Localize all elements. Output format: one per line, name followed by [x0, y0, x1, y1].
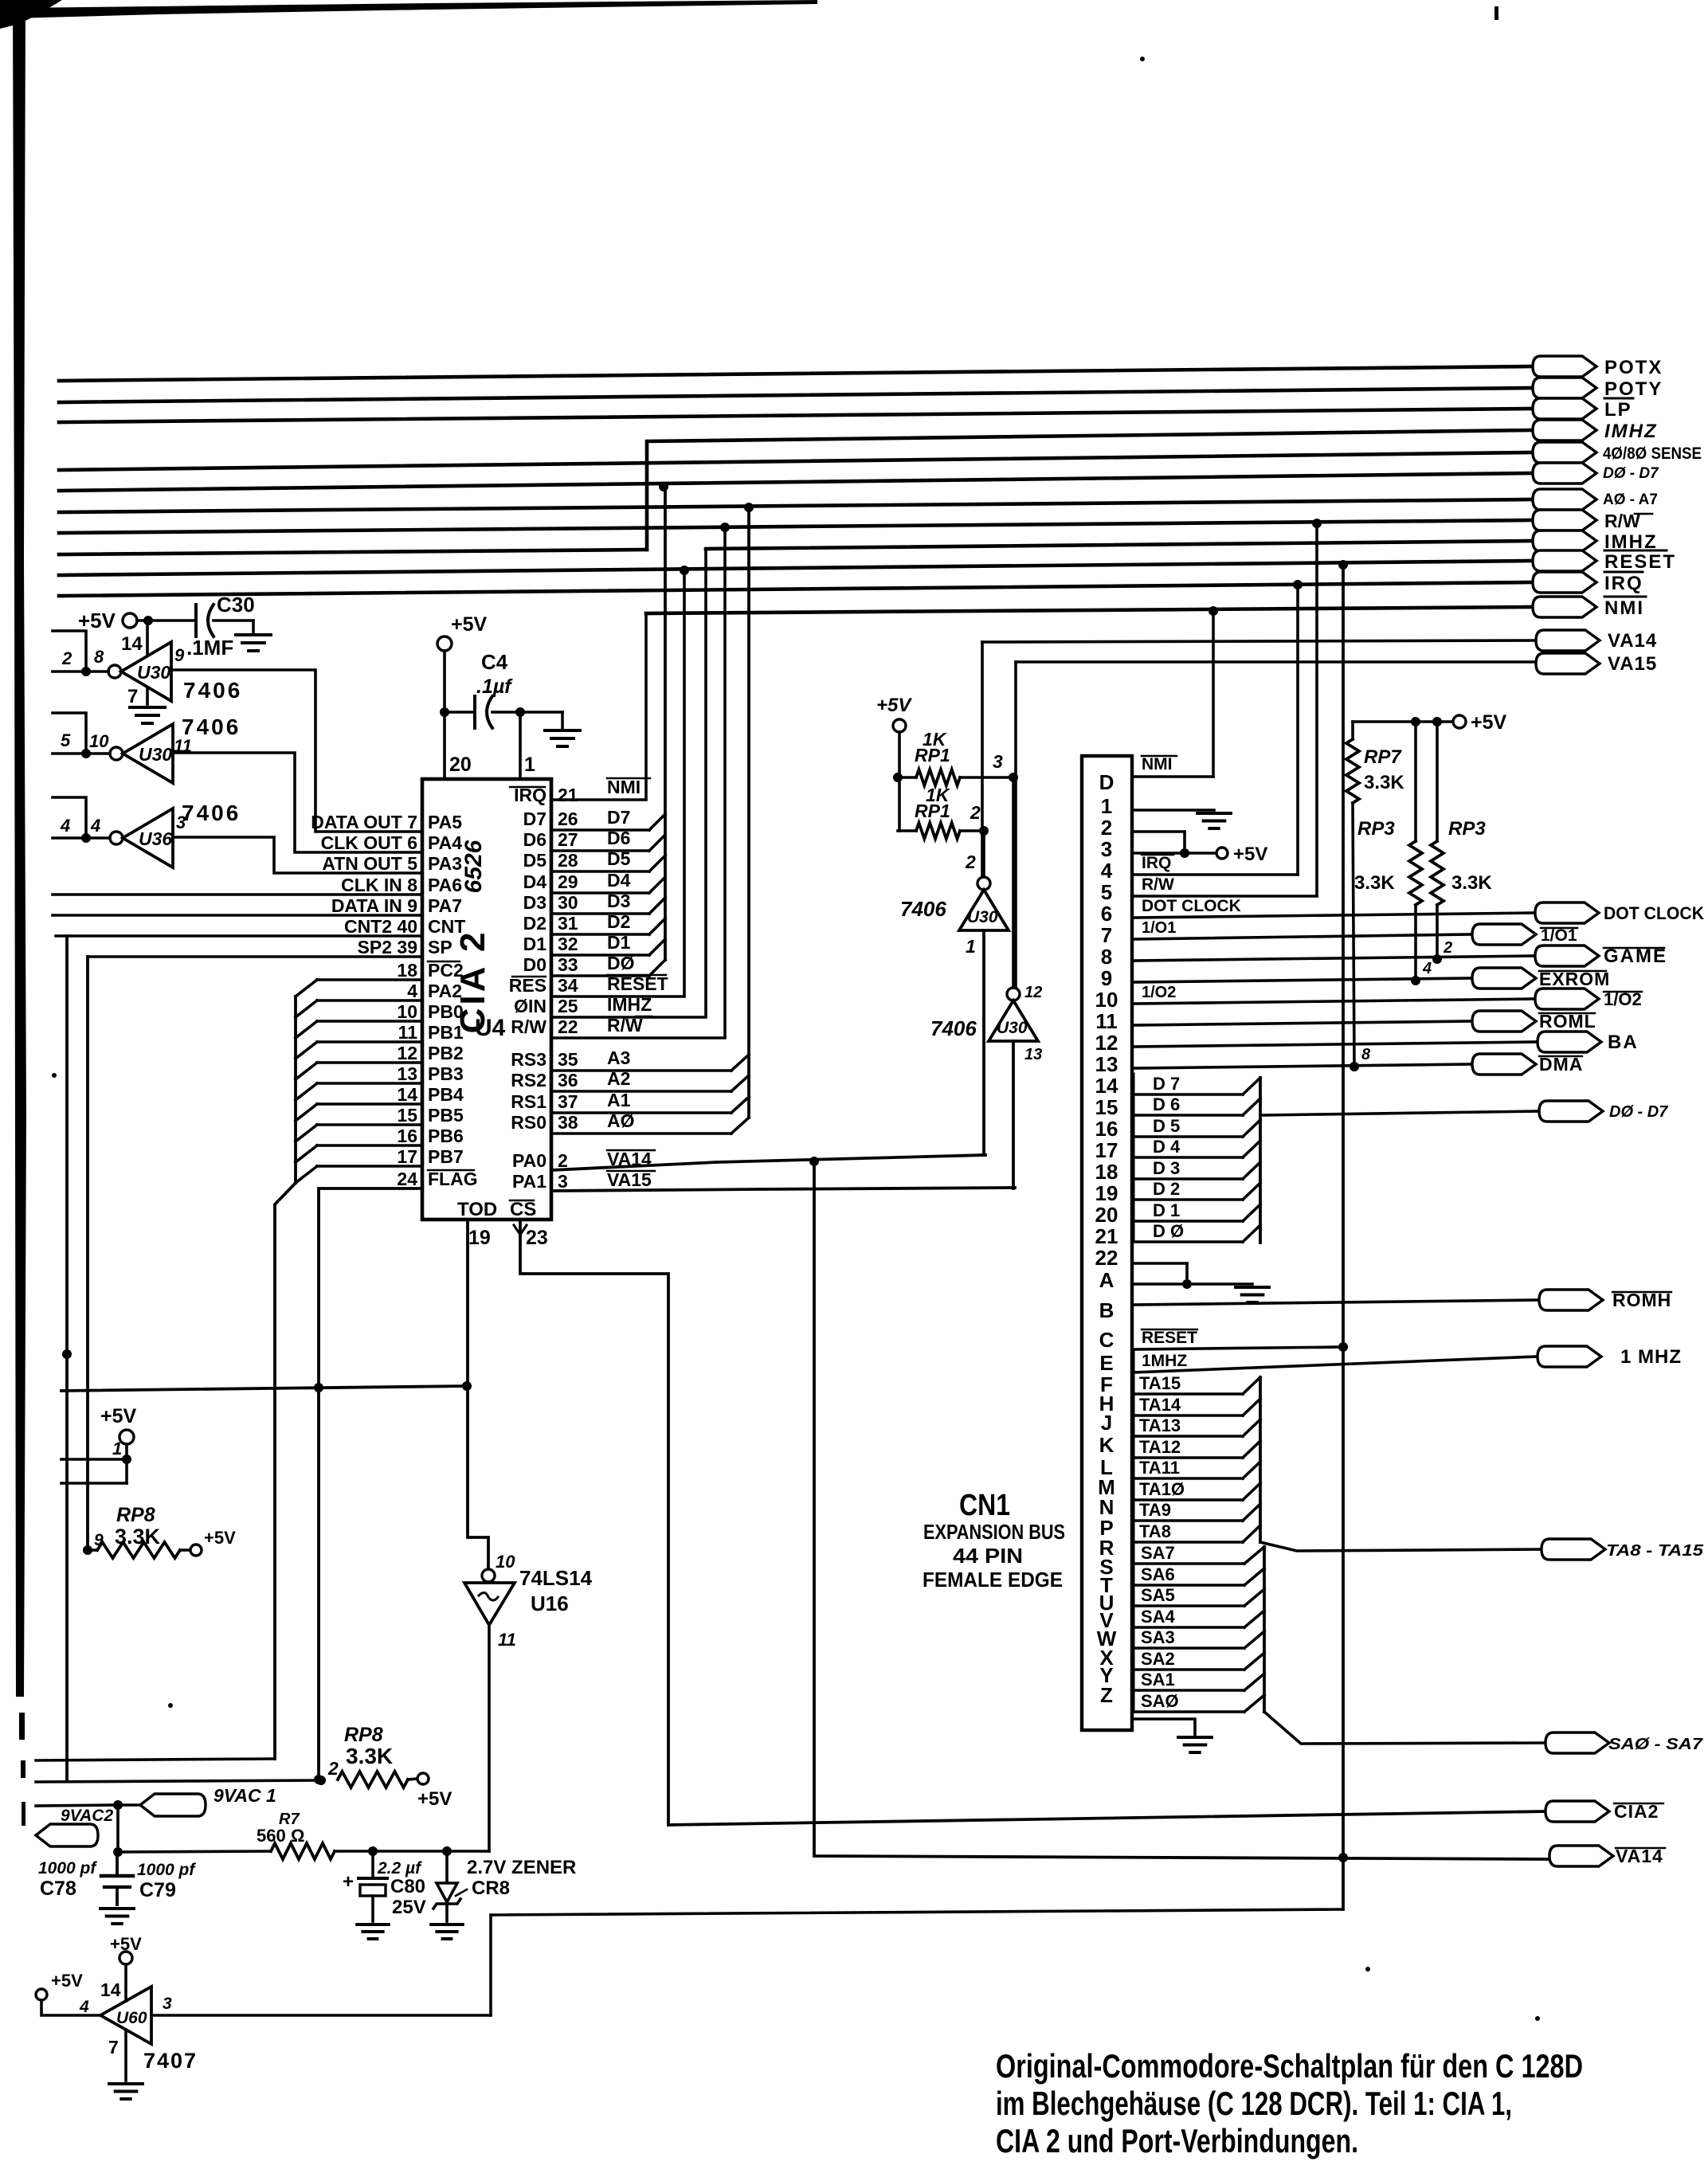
wire long vertical RESET / bottom chain x1686	[1342, 565, 1345, 1909]
svg-text:PB1: PB1	[428, 1022, 464, 1043]
svg-text:C4: C4	[481, 650, 508, 674]
svg-text:3.3K: 3.3K	[115, 1525, 161, 1549]
CN1 TA15..TA8 pins with bus merge	[1132, 1392, 1243, 1396]
svg-text:1: 1	[1101, 794, 1112, 818]
CN1 pin 1 ground	[1132, 809, 1214, 812]
power +5V at RP7/RP3	[1353, 720, 1453, 723]
svg-text:27: 27	[558, 829, 578, 850]
svg-text:+5V: +5V	[78, 609, 116, 632]
svg-text:RP3: RP3	[1357, 818, 1395, 840]
wire FLAG row vertical	[319, 1188, 422, 1780]
svg-text:2.2 µf: 2.2 µf	[377, 1859, 422, 1877]
svg-text:D7: D7	[607, 807, 630, 828]
svg-text:TA9: TA9	[1139, 1500, 1171, 1520]
junction on bus	[1338, 560, 1348, 570]
svg-text:7406: 7406	[183, 678, 242, 703]
U60 pin 14 +5V	[119, 1952, 132, 1964]
svg-text:+5V: +5V	[451, 613, 488, 636]
svg-text:PC2: PC2	[428, 960, 464, 981]
svg-text:9: 9	[94, 1531, 104, 1549]
junction on bus	[1209, 606, 1218, 616]
connector flag D0-D7	[1533, 463, 1596, 484]
svg-text:PA2: PA2	[428, 981, 462, 1001]
svg-text:U36: U36	[139, 828, 172, 849]
svg-text:FEMALE EDGE: FEMALE EDGE	[923, 1568, 1063, 1592]
svg-text:A: A	[1099, 1268, 1115, 1292]
svg-text:DOT CLOCK: DOT CLOCK	[1142, 897, 1241, 915]
svg-text:4: 4	[60, 816, 70, 836]
wire CIA SP2 to left vertical	[88, 955, 422, 958]
svg-text:14: 14	[1095, 1074, 1118, 1098]
svg-text:SA2: SA2	[1141, 1649, 1175, 1669]
svg-text:SP: SP	[428, 937, 452, 957]
scan border left bar	[13, 0, 26, 1697]
svg-text:3: 3	[993, 751, 1003, 772]
wire bus LP	[59, 409, 1533, 422]
CN1 pin 6 DOT CLOCK wire+flag	[1132, 913, 1535, 918]
wire SA0-SA7 to flag	[1264, 1712, 1545, 1744]
svg-text:Original-Commodore-Schaltplan: Original-Commodore-Schaltplan für den C …	[996, 2047, 1583, 2085]
svg-text:CN1: CN1	[959, 1489, 1010, 1522]
svg-text:10: 10	[496, 1552, 515, 1572]
svg-text:14: 14	[100, 1979, 121, 2000]
wire bus 1MHZ cartridge (upper italic) with riser	[647, 430, 1533, 550]
svg-text:9VAC2: 9VAC2	[61, 1807, 113, 1825]
svg-text:10: 10	[1095, 988, 1118, 1012]
svg-text:D 4: D 4	[1153, 1137, 1181, 1157]
scan border top line	[13, 0, 817, 18]
svg-text:POTY: POTY	[1604, 378, 1663, 400]
svg-text:RS1: RS1	[511, 1091, 546, 1112]
svg-text:3: 3	[163, 1995, 172, 2013]
svg-text:CNT2 40: CNT2 40	[344, 916, 417, 937]
svg-text:IRQ: IRQ	[1142, 854, 1171, 872]
svg-text:26: 26	[558, 809, 578, 829]
svg-text:D2: D2	[523, 913, 546, 934]
svg-text:U30: U30	[967, 908, 998, 926]
svg-text:22: 22	[558, 1016, 578, 1037]
svg-text:17: 17	[1095, 1138, 1118, 1162]
connector flag VA14 bottom	[1549, 1846, 1613, 1866]
resistor RP1 a (1K) to VA15 riser	[916, 769, 960, 785]
svg-text:D 7: D 7	[1153, 1074, 1180, 1094]
svg-text:TA12: TA12	[1139, 1437, 1181, 1457]
svg-text:15: 15	[397, 1105, 417, 1126]
connector flag 1MHZ-cart	[1533, 420, 1596, 440]
junction on bus	[680, 566, 689, 575]
svg-text:8: 8	[1361, 1046, 1371, 1063]
svg-text:D0: D0	[523, 954, 546, 975]
wire VA14 riser top x1233	[981, 642, 984, 879]
svg-text:1000 pf: 1000 pf	[38, 1859, 97, 1877]
svg-text:4: 4	[1422, 960, 1432, 977]
connector flag NMI	[1533, 597, 1596, 617]
svg-text:1/O1: 1/O1	[1142, 919, 1176, 937]
svg-text:+: +	[343, 1871, 354, 1893]
svg-text:D6: D6	[523, 829, 546, 850]
svg-text:PB6: PB6	[428, 1126, 464, 1146]
svg-text:8: 8	[94, 647, 104, 667]
CN1 pin 10 I/O2 wire+flag	[1132, 999, 1535, 1004]
connector flag CIA2	[1545, 1801, 1609, 1822]
svg-text:3.3K: 3.3K	[1354, 872, 1395, 894]
wire CIA PA0 row (VA14)	[551, 1155, 985, 1170]
svg-text:17: 17	[397, 1146, 417, 1167]
svg-text:C80: C80	[390, 1876, 425, 1897]
svg-text:TA8: TA8	[1139, 1521, 1171, 1541]
svg-text:PB2: PB2	[428, 1043, 464, 1063]
svg-text:B: B	[1099, 1298, 1115, 1322]
svg-text:11: 11	[498, 1630, 516, 1650]
svg-text:VA15: VA15	[607, 1169, 652, 1190]
wire bottom return from U60 to x1686	[491, 1909, 1343, 2015]
svg-text:13: 13	[1095, 1052, 1118, 1076]
wire bus NMI (from CIA IRQ pin 21 riser)	[646, 607, 1533, 613]
svg-text:33: 33	[558, 954, 578, 975]
wire horizontal link y1742	[61, 1386, 468, 1391]
wire bus 1MHZ system (from CIA phi-in riser)	[706, 541, 1533, 549]
svg-text:29: 29	[558, 871, 578, 892]
junction on bus	[1293, 580, 1303, 589]
svg-text:+5V: +5V	[417, 1788, 452, 1810]
connector flag R/W	[1533, 510, 1596, 531]
svg-text:LP: LP	[1604, 399, 1632, 421]
scan border left bar dashes	[19, 1713, 25, 1740]
svg-text:+5V: +5V	[1471, 711, 1507, 734]
inverter U36 (7406)	[110, 832, 123, 844]
svg-text:TA8 - TA15: TA8 - TA15	[1606, 1542, 1704, 1560]
svg-text:FLAG: FLAG	[428, 1169, 478, 1189]
wire bundle tail to x345 vertical	[275, 1183, 296, 1759]
svg-text:A1: A1	[607, 1090, 631, 1110]
CN1 pin C RESET wire	[1132, 1347, 1343, 1349]
CN1 pin 13 DMA wire+flag	[1132, 1064, 1472, 1068]
svg-text:5: 5	[61, 730, 71, 750]
svg-text:SP2 39: SP2 39	[358, 937, 417, 957]
resistor RP8 a 3.3K with +5V	[83, 1545, 92, 1555]
svg-text:.1MF: .1MF	[186, 636, 233, 660]
wire horizontal y2235 RP8b node	[36, 1780, 321, 1782]
svg-text:TOD: TOD	[457, 1199, 497, 1220]
svg-text:+5V: +5V	[110, 1934, 142, 1954]
svg-text:19: 19	[1095, 1181, 1118, 1205]
svg-text:25V: 25V	[392, 1897, 426, 1918]
pin 1 wire of CIA	[519, 712, 522, 779]
svg-text:RP3: RP3	[1448, 818, 1486, 840]
svg-text:RS2: RS2	[511, 1070, 546, 1090]
svg-text:D7: D7	[523, 809, 546, 829]
resistor R7 560 ohm	[118, 1851, 271, 1852]
connector flag 40/80	[1533, 442, 1596, 463]
junction on bus	[659, 482, 668, 491]
svg-text:DØ - D7: DØ - D7	[1609, 1103, 1668, 1121]
CN1 pin 7 I/O1 wire+flag	[1132, 934, 1472, 939]
svg-text:8: 8	[1101, 945, 1112, 969]
svg-text:1/O1: 1/O1	[1541, 926, 1577, 945]
input wire U30a with stub	[53, 670, 108, 673]
U60 pin 7 ground	[124, 2030, 127, 2081]
svg-text:7406: 7406	[182, 801, 241, 825]
svg-text:+5V: +5V	[204, 1528, 236, 1548]
CN1 pin E 1MHZ wire+flag	[1132, 1357, 1538, 1372]
inverter U30 gate A (7406)	[108, 665, 121, 678]
scan speck top right	[1494, 6, 1498, 20]
CN1 pin 4 IRQ wire	[1132, 873, 1298, 876]
svg-text:21: 21	[1095, 1224, 1118, 1248]
svg-text:D 6: D 6	[1153, 1094, 1180, 1114]
wire CIA phi-IN riser to 1MHZ bus	[551, 549, 706, 1017]
wire TA8-TA15 to flag	[1260, 1542, 1542, 1551]
svg-text:1000 pf: 1000 pf	[137, 1861, 196, 1879]
connector flag POTY	[1533, 378, 1596, 398]
resistor RP3 b 3.3K	[1436, 722, 1439, 841]
svg-text:AØ - A7: AØ - A7	[1603, 491, 1658, 508]
wire CIA pin19 TOD down to U16 chain	[468, 1220, 488, 1569]
svg-text:EXPANSION BUS: EXPANSION BUS	[923, 1520, 1065, 1544]
svg-text:CR8: CR8	[472, 1877, 510, 1899]
svg-text:CLK OUT 6: CLK OUT 6	[321, 832, 417, 853]
svg-text:D 5: D 5	[1153, 1116, 1180, 1136]
svg-text:28: 28	[558, 850, 578, 871]
svg-text:1/O2: 1/O2	[1142, 984, 1176, 1001]
CN1 pin Z ground	[1132, 1719, 1195, 1735]
svg-text:31: 31	[558, 913, 578, 934]
svg-text:Z: Z	[1100, 1683, 1113, 1707]
svg-text:5: 5	[1101, 880, 1112, 904]
wire CIA RES riser to RESET bus	[551, 570, 684, 996]
svg-text:U30: U30	[139, 744, 172, 765]
svg-text:RP8: RP8	[344, 1724, 383, 1746]
CN1 pin 8 GAME wire+flag	[1132, 956, 1535, 961]
svg-text:11: 11	[398, 1022, 418, 1043]
svg-text:4: 4	[407, 981, 417, 1001]
junction on bus	[720, 523, 730, 532]
svg-text:D 1: D 1	[1153, 1200, 1180, 1220]
svg-text:TA14: TA14	[1139, 1395, 1181, 1415]
svg-text:+5V: +5V	[876, 695, 912, 716]
svg-text:34: 34	[558, 975, 578, 996]
svg-text:SA4: SA4	[1141, 1607, 1176, 1627]
svg-text:D4: D4	[607, 870, 631, 891]
svg-text:1MHZ: 1MHZ	[1142, 1352, 1187, 1370]
wire VA15 riser top x1275	[1014, 662, 1017, 989]
scan speck dots	[1365, 1967, 1370, 1971]
svg-text:13: 13	[1024, 1046, 1042, 1063]
wire D0-D7 to flag	[1260, 1111, 1539, 1115]
CN1 data pins 14-21 D7..D0 with bus merge	[1132, 1093, 1243, 1096]
svg-text:9: 9	[174, 645, 185, 665]
wire left vertical from CNT2/SP2 area x84	[65, 936, 69, 1779]
input wire U36 with stub	[53, 836, 110, 840]
svg-text:TA13: TA13	[1139, 1415, 1181, 1435]
svg-text:23: 23	[526, 1227, 548, 1249]
svg-text:RP1: RP1	[915, 801, 950, 821]
svg-text:D1: D1	[523, 934, 547, 954]
svg-text:RESET: RESET	[1142, 1329, 1197, 1347]
inverter U30 gate B (7406)	[110, 747, 123, 760]
connector CN1 44 pin edge body	[1082, 756, 1132, 1730]
svg-text:U16: U16	[531, 1592, 569, 1615]
inverter U30 gate (7406) on VA14, pins 2/1	[982, 831, 985, 877]
svg-text:2: 2	[61, 648, 72, 668]
svg-text:DATA OUT 7: DATA OUT 7	[311, 812, 417, 832]
capacitor C80 electrolytic 2.2uf 25V	[371, 1851, 374, 1877]
connector flag RESET	[1533, 550, 1596, 571]
connector flag VA14 top	[1536, 630, 1600, 651]
svg-text:1: 1	[966, 936, 976, 957]
svg-text:RS3: RS3	[511, 1049, 546, 1070]
CN1 pin 5 R/W wire	[1132, 895, 1317, 898]
svg-text:18: 18	[1095, 1160, 1118, 1184]
svg-text:6: 6	[1101, 902, 1112, 926]
svg-text:12: 12	[1024, 984, 1042, 1001]
svg-text:10: 10	[89, 731, 109, 751]
svg-text:4Ø/8Ø SENSE: 4Ø/8Ø SENSE	[1603, 444, 1702, 463]
svg-text:D3: D3	[523, 892, 546, 913]
svg-text:3.3K: 3.3K	[346, 1744, 393, 1768]
svg-text:PA5: PA5	[428, 812, 462, 832]
svg-text:9VAC 1: 9VAC 1	[213, 1785, 276, 1806]
wire U16 output to R7 node	[488, 1625, 491, 1851]
svg-text:D5: D5	[523, 850, 547, 871]
scan border corner blob	[0, 0, 62, 29]
svg-text:37: 37	[558, 1091, 578, 1112]
svg-text:3: 3	[558, 1171, 568, 1192]
svg-text:74LS14: 74LS14	[519, 1566, 593, 1590]
svg-text:POTX: POTX	[1604, 357, 1663, 378]
svg-text:4: 4	[1101, 859, 1113, 883]
input wire U30b with stub	[53, 752, 110, 755]
svg-text:U30: U30	[997, 1019, 1028, 1037]
svg-text:R/W: R/W	[1142, 875, 1174, 894]
svg-text:2: 2	[1101, 816, 1112, 840]
svg-text:15: 15	[1095, 1095, 1118, 1119]
svg-text:RES: RES	[509, 975, 546, 996]
svg-text:35: 35	[558, 1049, 578, 1070]
svg-text:2: 2	[965, 852, 976, 872]
svg-text:PA0: PA0	[512, 1150, 546, 1171]
wire bus 40/80 SENSE	[59, 452, 1533, 470]
wire CIA PA7 DATA IN to left edge	[53, 914, 422, 917]
svg-text:7: 7	[127, 686, 138, 707]
connector flag 1MHZ	[1533, 531, 1596, 551]
svg-text:BA: BA	[1608, 1032, 1639, 1053]
junction on bus	[1312, 519, 1322, 528]
svg-text:.1µf: .1µf	[476, 675, 513, 698]
CN1 pin B ROMH wire+flag	[1132, 1300, 1539, 1305]
svg-text:21: 21	[558, 785, 578, 805]
svg-text:IRQ: IRQ	[1604, 573, 1643, 594]
svg-text:D: D	[1099, 770, 1115, 794]
svg-text:14: 14	[397, 1084, 417, 1105]
svg-text:22: 22	[1095, 1246, 1118, 1270]
svg-text:1: 1	[524, 754, 535, 776]
wire CIA PA1 row (VA15)	[551, 1188, 1015, 1191]
wire CIA R/W riser to R/W bus	[551, 527, 725, 1038]
svg-text:U30: U30	[137, 662, 170, 683]
resistor RP7 3.3K	[1351, 722, 1354, 739]
svg-text:PA7: PA7	[428, 895, 462, 916]
svg-text:TA11: TA11	[1139, 1458, 1180, 1478]
svg-text:J: J	[1101, 1411, 1112, 1435]
capacitor C30	[194, 605, 198, 636]
svg-text:4: 4	[79, 1998, 89, 2016]
svg-text:14: 14	[121, 633, 143, 655]
CN1 pin 12 BA wire+flag	[1132, 1042, 1538, 1047]
svg-text:RP8: RP8	[116, 1504, 155, 1526]
svg-text:20: 20	[449, 754, 472, 776]
CN1 SA7..SA0 pins with bus merge	[1132, 1562, 1244, 1565]
svg-text:NMI: NMI	[607, 777, 640, 797]
connector flag IRQ	[1533, 572, 1596, 593]
wire CIA PA6 CLK IN to left edge	[53, 893, 422, 896]
connector flag A0-A7	[1533, 489, 1596, 510]
svg-text:R/W: R/W	[511, 1016, 546, 1037]
svg-text:PA1: PA1	[512, 1171, 546, 1192]
svg-text:D Ø: D Ø	[1153, 1221, 1184, 1241]
svg-text:18: 18	[397, 960, 417, 981]
wire bus 1MHZ feeder from left edge	[59, 550, 647, 554]
connector flag VA15 top	[1536, 653, 1600, 674]
wire bus R/W	[59, 520, 1533, 533]
svg-text:7406: 7406	[930, 1016, 977, 1040]
svg-text:CLK IN 8: CLK IN 8	[341, 875, 417, 895]
output wire U30b to CIA PA4 (CLK OUT)	[173, 753, 422, 852]
CN1 pin 9 EXROM wire+flag	[1132, 978, 1472, 982]
svg-text:NMI: NMI	[1604, 597, 1644, 619]
wires CIA RS3..RS0 merge to riser x940	[551, 1069, 731, 1072]
wire left vertical x110 to RP8	[86, 957, 89, 1550]
svg-text:+5V: +5V	[1233, 844, 1267, 865]
svg-text:2: 2	[970, 802, 981, 823]
svg-text:ATN OUT 5: ATN OUT 5	[322, 853, 417, 874]
svg-text:2: 2	[327, 1758, 339, 1779]
connector flag 9VAC2	[36, 1824, 98, 1846]
svg-text:3.3K: 3.3K	[1364, 772, 1404, 793]
wire CIA pin23 CS to CIA2 flag	[520, 1220, 668, 1825]
output wire U36 to CIA PA3 (ATN OUT)	[173, 837, 422, 873]
svg-text:PA3: PA3	[428, 853, 462, 874]
svg-text:VA15: VA15	[1608, 653, 1657, 675]
svg-text:2.7V ZENER: 2.7V ZENER	[467, 1857, 576, 1878]
diode CR8 2.7V zener	[445, 1851, 449, 1881]
output wire U30a to CIA PA5 (DATA OUT)	[171, 670, 422, 832]
svg-text:7: 7	[1101, 923, 1112, 947]
capacitor C4	[445, 711, 473, 714]
svg-text:TA1Ø: TA1Ø	[1139, 1479, 1185, 1499]
svg-text:A3: A3	[607, 1047, 630, 1068]
svg-text:16: 16	[397, 1126, 417, 1146]
connector flag LP	[1533, 398, 1596, 419]
svg-text:12: 12	[1095, 1031, 1118, 1055]
svg-text:11: 11	[1095, 1009, 1118, 1033]
svg-text:7406: 7406	[900, 897, 946, 921]
svg-text:SA7: SA7	[1141, 1543, 1175, 1563]
wire U60 output	[151, 2014, 491, 2017]
svg-text:SA1: SA1	[1141, 1670, 1175, 1690]
svg-text:1: 1	[112, 1439, 122, 1459]
svg-text:1 MHZ: 1 MHZ	[1620, 1346, 1682, 1368]
schmitt inverter U16 74LS14	[482, 1569, 495, 1582]
svg-text:PB4: PB4	[428, 1084, 464, 1105]
svg-text:VA14: VA14	[1608, 630, 1657, 652]
svg-text:24: 24	[397, 1169, 417, 1189]
svg-text:RS0: RS0	[511, 1112, 546, 1133]
svg-text:44 PIN: 44 PIN	[953, 1544, 1023, 1568]
wire 9VAC1 down to R7 node	[116, 1805, 119, 1852]
ground of C30	[236, 633, 271, 636]
svg-text:PB0: PB0	[428, 1001, 464, 1022]
